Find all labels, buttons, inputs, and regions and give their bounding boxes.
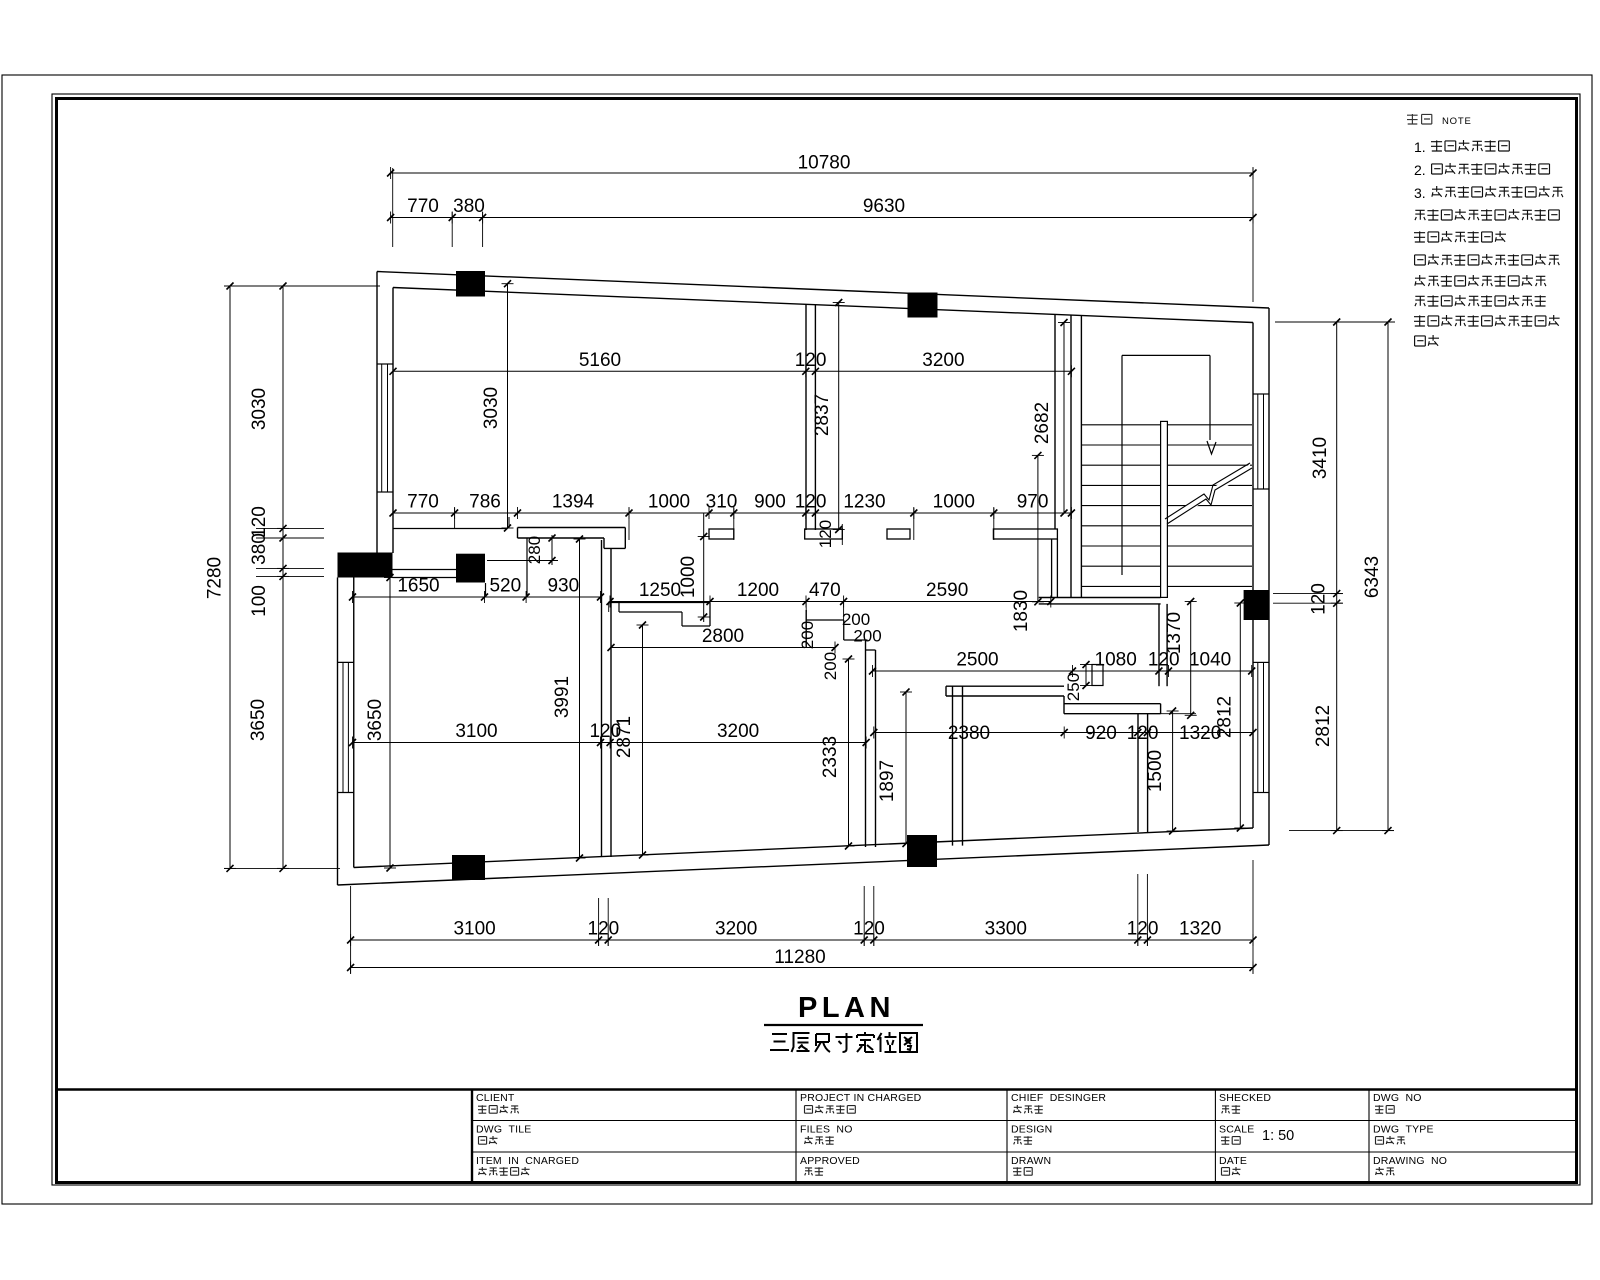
svg-text:250: 250 (1064, 673, 1083, 701)
svg-text:3300: 3300 (985, 919, 1027, 940)
stair diagonal break mask (1163, 464, 1250, 526)
svg-text:DESIGN: DESIGN (1011, 1124, 1052, 1136)
svg-text:380: 380 (453, 196, 485, 217)
svg-text:1000: 1000 (933, 492, 975, 513)
svg-text:1897: 1897 (877, 760, 898, 802)
svg-text:120: 120 (816, 520, 835, 548)
bottom wall outer (338, 845, 1270, 885)
svg-text:7280: 7280 (205, 557, 226, 599)
svg-text:2380: 2380 (948, 723, 990, 744)
svg-text:DWG TILE: DWG TILE (476, 1124, 531, 1136)
dim 2871 interior (642, 625, 644, 855)
svg-text:200: 200 (853, 627, 881, 646)
column top-middle (908, 293, 938, 318)
svg-text:970: 970 (1017, 492, 1049, 513)
svg-text:280: 280 (525, 536, 544, 564)
svg-text:3200: 3200 (717, 721, 759, 742)
top wall inner line (393, 288, 1253, 323)
title block row line 2 (472, 1151, 1577, 1153)
top wall outer line (377, 272, 1269, 309)
svg-text:120: 120 (853, 919, 885, 940)
svg-text:920: 920 (1085, 723, 1117, 744)
svg-text:1830: 1830 (1011, 590, 1032, 632)
stair rail (1161, 421, 1168, 597)
cabinet band right of wall C (610, 602, 710, 604)
title underline (764, 1024, 923, 1026)
right wall inner (1252, 323, 1254, 829)
svg-text:3100: 3100 (455, 721, 497, 742)
dim 3650 interior (389, 578, 391, 869)
svg-text:2812: 2812 (1313, 705, 1334, 747)
left dim extension lines (224, 285, 380, 287)
column bottom-middle (907, 835, 937, 867)
stair break double line (1167, 468, 1252, 524)
svg-text:120: 120 (795, 350, 827, 371)
title block top edge (55, 1088, 1578, 1091)
svg-text:1650: 1650 (397, 576, 439, 597)
svg-text:900: 900 (754, 492, 786, 513)
dim line 3030/120/380/100/3650 (282, 286, 284, 868)
svg-text:DWG NO: DWG NO (1373, 1092, 1422, 1104)
svg-text:1394: 1394 (552, 492, 595, 513)
interior wall F (1137, 714, 1139, 832)
title block column divider x1007 (1006, 1090, 1008, 1183)
stair shaft bottom wall (1039, 597, 1161, 599)
wall between columns C3-C4 (393, 569, 457, 571)
svg-text:1250: 1250 (639, 580, 681, 601)
svg-text:930: 930 (547, 576, 579, 597)
svg-text:770: 770 (407, 492, 439, 513)
svg-text:1000: 1000 (648, 492, 690, 513)
step wall v1064 (1063, 696, 1065, 714)
stair shaft left wall (1070, 315, 1072, 597)
interior wall D (865, 640, 867, 847)
title block chinese sublabels (478, 1105, 519, 1113)
window right-lower (1253, 661, 1269, 663)
svg-text:9630: 9630 (863, 196, 905, 217)
dim 1830 interior (1037, 455, 1039, 601)
dim line 2500/1080/120/1040 (873, 670, 1252, 672)
svg-text:2682: 2682 (1032, 402, 1053, 444)
dim 2333 interior (848, 659, 850, 846)
svg-text:1230: 1230 (843, 492, 885, 513)
dim line 5160/120/3200 (393, 370, 1071, 372)
svg-text:786: 786 (469, 492, 501, 513)
svg-text:1.: 1. (1414, 139, 1426, 155)
svg-text:3410: 3410 (1310, 437, 1331, 479)
dim 3991 interior (579, 539, 581, 858)
svg-text:520: 520 (489, 576, 521, 597)
svg-text:2590: 2590 (926, 580, 968, 601)
right dim extension lines (1275, 321, 1395, 323)
svg-text:DRAWING NO: DRAWING NO (1373, 1155, 1447, 1167)
dim line 2800 (611, 647, 835, 649)
dim line 2380/920/120/1320 (874, 732, 1253, 734)
dim line 1250/1200/470/2590 (610, 601, 1051, 603)
svg-text:3200: 3200 (715, 919, 757, 940)
svg-text:11280: 11280 (774, 947, 825, 968)
svg-text:100: 100 (249, 585, 270, 617)
svg-text:3991: 3991 (552, 676, 573, 718)
interior wall G (952, 686, 954, 845)
left wall lower outer (337, 578, 339, 886)
svg-text:1: 50: 1: 50 (1262, 1128, 1294, 1144)
column top-left (456, 271, 485, 297)
svg-text:1080: 1080 (1095, 650, 1137, 671)
svg-text:310: 310 (706, 492, 738, 513)
window right-stair (1253, 393, 1269, 395)
dim line 11280 (351, 967, 1253, 969)
svg-text:DATE: DATE (1219, 1155, 1247, 1167)
svg-text:120: 120 (249, 506, 270, 538)
left wall upper inner (392, 288, 394, 554)
wall band y686 (946, 685, 1064, 687)
interior wall C (x601) (601, 540, 603, 857)
title block column divider x796 (795, 1090, 797, 1183)
stair landing lines (1122, 354, 1210, 356)
dim 1897 interior (905, 692, 907, 844)
ext lines for 513 run (454, 508, 456, 528)
svg-text:2800: 2800 (702, 626, 744, 647)
window left-lower (338, 661, 354, 663)
svg-text:1200: 1200 (737, 580, 779, 601)
svg-text:470: 470 (809, 580, 841, 601)
dim 2837 interior (838, 303, 840, 530)
svg-text:3.: 3. (1414, 185, 1426, 201)
title block row line 1 (472, 1120, 1577, 1122)
window left-upper (377, 363, 393, 365)
svg-text:770: 770 (407, 196, 439, 217)
svg-text:120: 120 (1127, 919, 1159, 940)
top dim extension lines (392, 168, 394, 247)
svg-text:3030: 3030 (249, 388, 270, 430)
wall below stairs vertical pair (1158, 604, 1160, 686)
bottom wall inner (354, 828, 1253, 868)
svg-text:10780: 10780 (798, 153, 851, 174)
dim line 7280 (229, 286, 231, 868)
svg-text:2.: 2. (1414, 162, 1426, 178)
dim 1000 interior (703, 513, 705, 622)
dim 1500 interior (1172, 711, 1174, 831)
svg-text:2837: 2837 (812, 394, 833, 436)
stair treads (1081, 424, 1252, 426)
dim line 1650/520/930 (353, 596, 601, 598)
svg-text:2500: 2500 (956, 650, 998, 671)
bottom dim extension lines (350, 886, 352, 974)
svg-text:DRAWN: DRAWN (1011, 1155, 1051, 1167)
interior wall A (x806) (805, 304, 807, 530)
dim line 3410/120/2812 right (1336, 322, 1338, 831)
svg-text:120: 120 (1127, 723, 1159, 744)
right wall outer (1268, 308, 1270, 845)
svg-text:1000: 1000 (678, 556, 699, 598)
wall stub S3 (887, 529, 910, 539)
dim line 3100/120/3200/120/3300/120/1320 (351, 939, 1253, 941)
wall stub S4 (993, 529, 1057, 539)
svg-text:120: 120 (1309, 583, 1330, 615)
svg-text:200: 200 (798, 621, 817, 649)
svg-text:120: 120 (588, 919, 620, 940)
dim line 10780 (391, 172, 1253, 174)
svg-text:2333: 2333 (820, 736, 841, 778)
small wall 250 box (1092, 665, 1103, 686)
svg-text:120: 120 (795, 492, 827, 513)
subtitle chinese: san ceng chi cun ding wei tu (770, 1034, 789, 1050)
svg-text:3200: 3200 (922, 350, 964, 371)
column mid-left-2 (456, 554, 485, 583)
corridor wall pair below band (1051, 539, 1053, 598)
wall band y704-713 (1064, 703, 1161, 705)
svg-text:PLAN: PLAN (798, 992, 895, 1024)
title block column divider x1215 (1214, 1090, 1216, 1183)
svg-text:PROJECT IN CHARGED: PROJECT IN CHARGED (800, 1092, 922, 1104)
svg-text:1500: 1500 (1145, 750, 1166, 792)
title block column divider x1369 (1368, 1090, 1370, 1183)
svg-text:DWG TYPE: DWG TYPE (1373, 1124, 1434, 1136)
wall stub S2 (709, 529, 734, 539)
wall stub A-470 (805, 529, 843, 539)
dim line 6343 (1387, 322, 1389, 831)
zigzag wall near 200 cluster (806, 619, 844, 621)
corridor wall band left (393, 528, 506, 530)
svg-text:SCALE: SCALE (1219, 1124, 1254, 1136)
svg-text:6343: 6343 (1362, 556, 1383, 598)
dim line 770/380/9630 (391, 217, 1253, 219)
left wall lower inner (353, 578, 355, 868)
svg-text:3100: 3100 (453, 919, 495, 940)
dim 2682 interior (1063, 323, 1065, 514)
svg-text:3650: 3650 (248, 699, 269, 741)
svg-text:2812: 2812 (1215, 696, 1236, 738)
stair arrow head (1207, 441, 1216, 454)
svg-text:CHIEF DESINGER: CHIEF DESINGER (1011, 1092, 1106, 1104)
column mid-left wide (338, 553, 393, 578)
interior wall A lower stub (805, 610, 807, 648)
svg-text:200: 200 (821, 652, 840, 680)
dim 1370 interior (1190, 602, 1192, 716)
dim 280 small (551, 535, 553, 565)
svg-text:3650: 3650 (365, 699, 386, 741)
svg-text:NOTE: NOTE (1442, 116, 1472, 127)
svg-text:5160: 5160 (579, 350, 621, 371)
dim line 3100/120/3200 interior (353, 742, 867, 744)
column bottom-left (452, 855, 485, 880)
closet walls bottom-left room (485, 583, 487, 595)
svg-text:CLIENT: CLIENT (476, 1092, 515, 1104)
left wall upper outer (376, 272, 378, 553)
dim 250 small (1085, 665, 1087, 686)
svg-text:ITEM IN CNARGED: ITEM IN CNARGED (476, 1155, 579, 1167)
closet wall x1055 (1054, 315, 1056, 529)
svg-text:1040: 1040 (1189, 650, 1231, 671)
svg-text:SHECKED: SHECKED (1219, 1092, 1271, 1104)
note heading chinese (1407, 114, 1432, 124)
dim 3030 interior (507, 284, 509, 528)
svg-text:1320: 1320 (1179, 919, 1221, 940)
column stairs-bottom (1244, 590, 1269, 620)
dim line 770/786/1394/1000/310/900/120/1230/1000/970 (393, 512, 1071, 514)
svg-text:1370: 1370 (1164, 612, 1185, 654)
svg-text:APPROVED: APPROVED (800, 1155, 860, 1167)
svg-text:3030: 3030 (481, 387, 502, 429)
title block column divider x472 (471, 1090, 473, 1183)
svg-text:2871: 2871 (614, 716, 635, 758)
svg-text:FILES NO: FILES NO (800, 1124, 853, 1136)
dim 2812 interior (1239, 603, 1241, 828)
